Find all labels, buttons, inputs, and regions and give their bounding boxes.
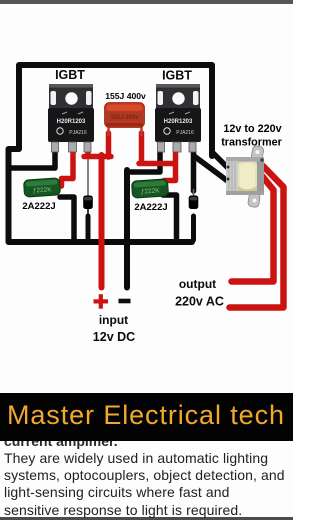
- wire: negative input rail (minus): [124, 170, 130, 288]
- svg-text:IGBT: IGBT: [55, 68, 85, 82]
- wire: D1 cathode thick segment: [86, 216, 91, 240]
- svg-text:ƒ222K: ƒ222K: [141, 187, 161, 195]
- wire: transformer secondary top to output (outer red): [230, 166, 284, 308]
- svg-text:transformer: transformer: [221, 137, 282, 149]
- svg-text:PJA216: PJA216: [176, 130, 194, 136]
- wire: D2 anode thin lead: [193, 189, 195, 197]
- svg-text:220v AC: 220v AC: [175, 295, 224, 309]
- svg-text:output: output: [179, 277, 216, 291]
- svg-text:12v to 220v: 12v to 220v: [223, 123, 281, 135]
- capacitor C2 2A222J (green, left): [23, 178, 60, 197]
- wire: Q2 collector drop to diode D2: [191, 150, 197, 191]
- svg-text:12v DC: 12v DC: [93, 330, 135, 344]
- wire: Q1 emitter red elbow to C2: [62, 148, 74, 186]
- svg-text:2A222J: 2A222J: [22, 201, 55, 212]
- wire: D1 anode thin lead: [87, 159, 89, 197]
- svg-text:H20R1203: H20R1203: [57, 119, 86, 125]
- capacitor C3 2A222J (green, right): [131, 179, 168, 198]
- wire: Q2 emitter red elbow to C3: [164, 148, 176, 181]
- transistor Q2 IGBT (TO-247 package): [155, 84, 201, 152]
- wire: right rail to transformer primary top: [212, 152, 229, 169]
- wire: Q2 collector to transformer primary bottom: [194, 156, 229, 182]
- svg-text:2A222J: 2A222J: [134, 202, 167, 213]
- svg-text:input: input: [99, 313, 128, 327]
- transformer T1 12v to 220v: [226, 145, 264, 208]
- wire: main black bus frame: [9, 65, 213, 242]
- wire: D2 cathode to bottom bus: [191, 216, 196, 240]
- capacitor C1 155J 400v (red film cap): [105, 103, 145, 128]
- label: minus terminal: [119, 299, 131, 304]
- transistor Q1 IGBT (TO-247 package): [48, 84, 94, 152]
- diode D1: [83, 196, 93, 210]
- wire: Q1 gate to left rail: [10, 150, 55, 168]
- wire: Q2 gate elbow: [128, 150, 160, 172]
- svg-text:PJA216: PJA216: [69, 130, 87, 136]
- wire: C2 right end down to bottom bus: [60, 197, 74, 240]
- diode D2: [189, 196, 199, 210]
- svg-text:IGBT: IGBT: [162, 69, 192, 83]
- svg-text:ƒ222K: ƒ222K: [33, 186, 53, 194]
- svg-text:H20R1203: H20R1203: [164, 119, 193, 125]
- wire: transformer secondary bottom to output (inner red): [232, 176, 274, 282]
- svg-text:155J 400v: 155J 400v: [105, 91, 146, 101]
- svg-text:155J 400v: 155J 400v: [110, 115, 139, 121]
- wire: C1 right lead over to Q2 emitter: [139, 133, 176, 164]
- wire: C3 right end down to bottom bus: [163, 195, 177, 240]
- wire: D1 cathode lead to bottom bus: [87, 208, 89, 240]
- wire: positive input rail (plus): [99, 155, 105, 288]
- label: plus terminal: [94, 294, 109, 309]
- wire: red node bus under Q1 (collector leg / C1 left lead): [84, 133, 111, 157]
